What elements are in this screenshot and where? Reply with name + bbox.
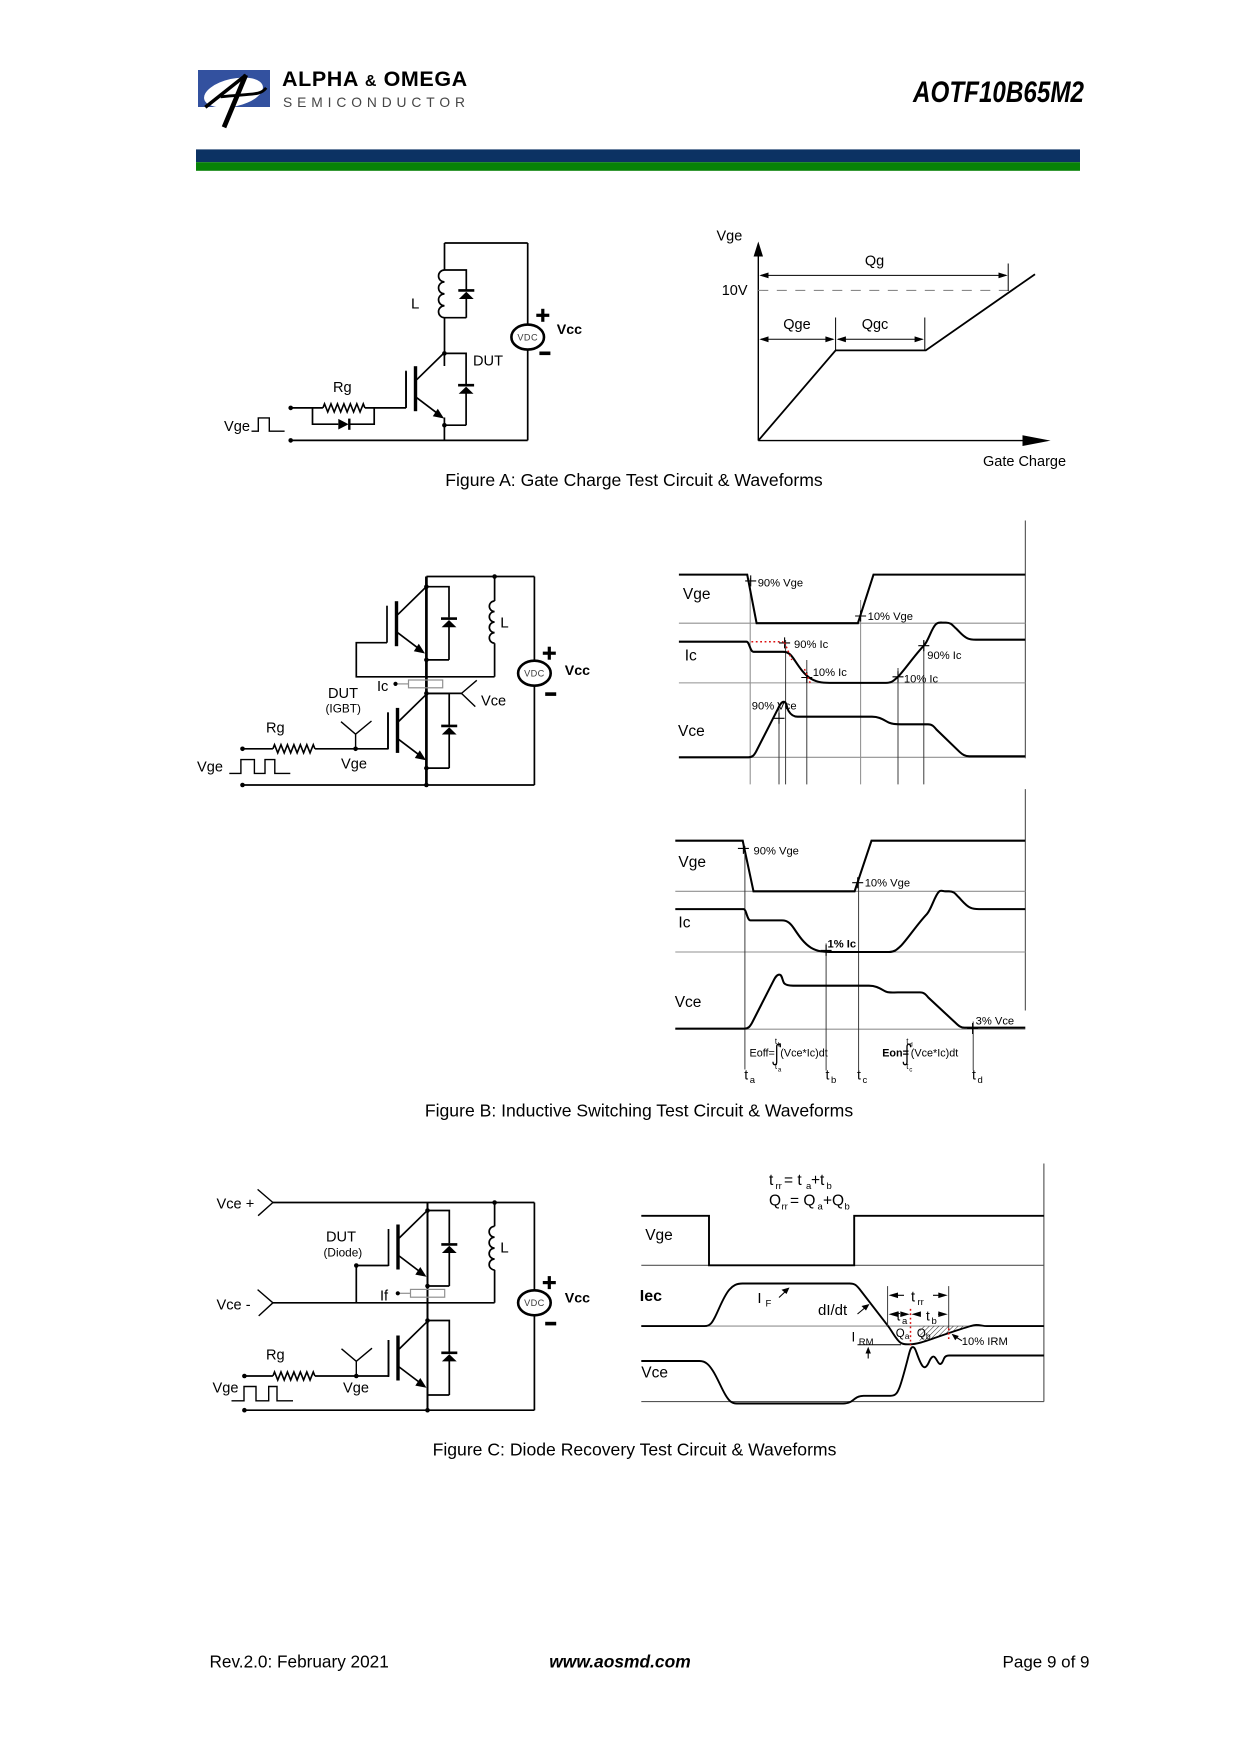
svg-text:b: b (845, 1202, 850, 1213)
refline 90%Ic fall (785, 640, 787, 784)
Eoff formula (750, 1037, 828, 1074)
diode DUT body diode (fig B) (441, 726, 457, 735)
svg-text:(Diode): (Diode) (324, 1245, 363, 1259)
polarity + (543, 652, 556, 655)
svg-text:a: a (778, 1066, 782, 1073)
svg-text:Ic: Ic (377, 679, 388, 695)
svg-text:Page 9 of 9: Page 9 of 9 (1003, 1653, 1090, 1672)
wire: top rail B (426, 576, 534, 578)
svg-text:Vce: Vce (675, 994, 702, 1011)
inductor L (fig A) (439, 270, 445, 318)
svg-text:Qgc: Qgc (862, 317, 889, 333)
wire: gate lead A (291, 372, 406, 408)
red dotted fall slope (785, 643, 792, 661)
inductor L (fig B) (489, 601, 494, 643)
formula trr (769, 1172, 832, 1192)
polarity + (543, 1281, 556, 1284)
wire: middle phase column B (425, 577, 428, 786)
panel2 right border (1024, 789, 1026, 1010)
svg-text:Vcc: Vcc (565, 1290, 590, 1306)
svg-text:90% Vge: 90% Vge (758, 578, 803, 590)
Vge pulse symbol B (229, 760, 290, 774)
node return C (242, 1408, 247, 1413)
svg-text:Q: Q (896, 1328, 905, 1340)
svg-text:10% Vge: 10% Vge (865, 878, 910, 890)
transistor DUT IGBT (fig B) (388, 695, 426, 761)
svg-text:Vcc: Vcc (565, 663, 590, 679)
svg-text:VDC: VDC (517, 332, 538, 342)
header bar green (196, 162, 1080, 171)
svg-text:VDC: VDC (524, 668, 545, 678)
svg-text:Vce +: Vce + (217, 1197, 255, 1213)
svg-text:+Q: +Q (823, 1193, 844, 1210)
svg-text:Eoff=: Eoff= (750, 1048, 775, 1060)
node gate input A (288, 406, 293, 411)
wire: DUT antiparallel diode branch A (444, 353, 466, 425)
panel1 Ic baseline (679, 682, 1025, 684)
wire: gate lead C (244, 1340, 388, 1376)
svg-text:= t: = t (784, 1172, 802, 1189)
refline tb (825, 943, 827, 1070)
refline 90%Vce (778, 704, 780, 784)
label IF (757, 1288, 789, 1310)
refline 90%Ic rise (923, 640, 925, 784)
svg-text:(IGBT): (IGBT) (326, 701, 361, 715)
svg-text:c: c (863, 1075, 868, 1086)
svg-text:Figure A: Gate Charge Test Cir: Figure A: Gate Charge Test Circuit & Wav… (445, 470, 823, 490)
svg-text:Vge: Vge (224, 419, 250, 435)
wire: top rail A (445, 242, 528, 244)
wire: middle column C (427, 1203, 429, 1411)
panel2 Vge baseline (675, 890, 1025, 892)
svg-text:t: t (926, 1309, 930, 1324)
panel1 Vge trace (679, 575, 1025, 624)
mark 1% Ic p2 (821, 945, 832, 956)
svg-text:Vce: Vce (678, 723, 705, 740)
Qgc dimension arrow (837, 318, 925, 351)
Eon formula (882, 1037, 958, 1074)
mark 10% Vge p2 (852, 877, 863, 888)
node upper gate C (354, 1263, 359, 1268)
panel1 right border (1024, 521, 1026, 759)
node L top B (492, 574, 497, 579)
Vce+ chevron (258, 1189, 273, 1215)
node return input A (288, 438, 293, 443)
logo blue box (198, 70, 270, 107)
label Qb (917, 1328, 931, 1341)
wire: upper diode branch B (426, 587, 449, 660)
wire: upper gate tie loop B (356, 643, 494, 677)
wire: VDC branch C (533, 1203, 535, 1411)
svg-text:Iec: Iec (640, 1288, 662, 1305)
wire: lower diode branch C (428, 1321, 450, 1396)
svg-text:b: b (831, 1075, 836, 1086)
svg-text:rr: rr (918, 1297, 924, 1308)
panel2 Ic baseline (675, 951, 1025, 953)
transistor upper IGBT (fig B) (387, 588, 425, 654)
dashed 10V level (758, 289, 1009, 291)
svg-text:Figure B: Inductive Switching: Figure B: Inductive Switching Test Circu… (425, 1101, 853, 1121)
header bar navy (196, 149, 1080, 162)
panel1 Vge baseline (679, 622, 1025, 624)
svg-text:L: L (500, 1240, 508, 1257)
svg-text:Qge: Qge (783, 317, 810, 333)
diode lower freewheel diode (fig C) (441, 1353, 457, 1362)
current sense shunt B (409, 680, 443, 688)
svg-text:(Vce*Ic)dt: (Vce*Ic)dt (911, 1048, 958, 1060)
svg-text:Vce: Vce (481, 693, 506, 709)
wire: bottom rail A (291, 439, 528, 441)
wire: gate lead B (243, 712, 389, 748)
voltage source V1 (fig B) VDC (518, 661, 551, 686)
svg-text:b: b (932, 1316, 937, 1327)
svg-text:b: b (827, 1181, 832, 1192)
svg-text:t: t (972, 1067, 976, 1083)
Vge probe Y C (342, 1348, 373, 1376)
wire: Vcc branch right A (527, 243, 529, 440)
figC Vce baseline (641, 1401, 1044, 1403)
svg-text:Vce: Vce (641, 1364, 668, 1381)
svg-text:DUT: DUT (473, 354, 503, 370)
mark 90% Vge p1 (745, 575, 756, 586)
svg-text:L: L (500, 615, 508, 632)
svg-text:Vge: Vge (197, 759, 223, 775)
svg-text:F: F (766, 1299, 772, 1310)
Ic probe lead (393, 682, 408, 686)
svg-text:VDC: VDC (524, 1298, 545, 1308)
figC Vce trace (641, 1347, 1044, 1403)
diode freewheel (fig A) (458, 290, 474, 299)
svg-text:10% Ic: 10% Ic (813, 667, 848, 679)
refline tc (858, 878, 860, 1071)
red marker 10% IRM (948, 1328, 950, 1341)
mark 10% Vge p1 (855, 611, 866, 622)
node emitter A (442, 423, 447, 428)
svg-text:ALPHA & OMEGA: ALPHA & OMEGA (282, 67, 468, 91)
svg-text:Vcc: Vcc (557, 322, 582, 338)
svg-text:t: t (744, 1067, 748, 1083)
svg-text:Vge: Vge (645, 1227, 673, 1244)
red marker ta/tb (910, 1309, 912, 1346)
resistor Rg (fig B) (273, 745, 315, 753)
svg-text:Ic: Ic (685, 648, 697, 665)
figC Iec baseline (641, 1325, 1044, 1327)
node return B (240, 783, 245, 788)
svg-text:Q: Q (917, 1328, 926, 1340)
panel1 Ic trace (679, 623, 1025, 683)
svg-text:RM: RM (859, 1337, 874, 1348)
node lower collector B (424, 691, 429, 696)
panel1 Vce baseline (679, 756, 1025, 758)
svg-text:Ic: Ic (678, 915, 690, 932)
svg-text:c: c (909, 1066, 912, 1073)
node upper emitter C (425, 1284, 430, 1289)
node upper collector C (425, 1208, 430, 1213)
polarity - (545, 692, 556, 696)
svg-text:d: d (978, 1075, 983, 1086)
svg-text:www.aosmd.com: www.aosmd.com (549, 1652, 690, 1672)
refline td (972, 1022, 974, 1071)
svg-text:L: L (411, 296, 419, 313)
svg-text:90% Ic: 90% Ic (794, 639, 829, 651)
wire: upper diode branch C (428, 1211, 450, 1287)
panel2 Vce trace (675, 975, 1025, 1029)
svg-text:+t: +t (811, 1172, 825, 1189)
figC Vge baseline (641, 1264, 1044, 1266)
svg-text:Rg: Rg (266, 1348, 285, 1364)
node Vge input C (242, 1374, 247, 1379)
svg-text:a: a (905, 1331, 910, 1341)
refline 10%Ic fall (806, 660, 808, 784)
figC Iec trace (641, 1284, 1044, 1345)
svg-text:Gate Charge: Gate Charge (983, 454, 1066, 470)
node phase B (424, 658, 429, 663)
inductor L (fig C) (489, 1226, 494, 1270)
gate charge curve (758, 274, 1035, 440)
svg-text:If: If (380, 1288, 389, 1304)
node gate probe C (354, 1374, 359, 1379)
refline t0 (749, 578, 751, 784)
node collector A (442, 351, 447, 356)
node lower emitter B (424, 766, 429, 771)
svg-text:Eon=: Eon= (882, 1048, 909, 1060)
x-axis Gate Charge (758, 435, 1050, 446)
logo ellipse (201, 73, 266, 113)
svg-text:(Vce*Ic)dt: (Vce*Ic)dt (780, 1048, 827, 1060)
svg-text:Vge: Vge (341, 757, 367, 773)
Vge pulse symbol C (232, 1387, 294, 1401)
svg-text:rr: rr (782, 1202, 788, 1213)
svg-text:Vge: Vge (717, 229, 743, 245)
transistor DUT IGBT upper (fig C) (389, 1211, 427, 1277)
svg-text:AOTF10B65M2: AOTF10B65M2 (912, 76, 1084, 109)
mark 90% Vge p2 (738, 843, 749, 854)
svg-text:I: I (852, 1329, 856, 1344)
mark 90% Ic fall p1 (779, 637, 790, 648)
formula Qrr (769, 1193, 850, 1213)
svg-text:1% Ic: 1% Ic (828, 939, 857, 951)
svg-text:90% Ic: 90% Ic (927, 650, 962, 662)
Vge pulse symbol A (252, 418, 285, 431)
svg-text:t: t (769, 1172, 774, 1189)
svg-text:10V: 10V (722, 283, 748, 299)
red dotted 10% mark (805, 669, 811, 683)
transistor lower IGBT (fig C) (389, 1322, 427, 1388)
mark 10% Ic rise p1 (893, 671, 904, 682)
svg-text:Qg: Qg (865, 254, 884, 270)
refline ta (744, 846, 746, 1070)
Vce- chevron (258, 1290, 273, 1316)
polarity + (536, 314, 549, 317)
panel2 Vge trace (675, 841, 1025, 892)
svg-text:Vge: Vge (213, 1381, 239, 1397)
mark 3% Vce p2 (967, 1023, 978, 1034)
svg-text:Figure C: Diode Recovery Test: Figure C: Diode Recovery Test Circuit & … (433, 1439, 837, 1459)
svg-text:a: a (902, 1316, 908, 1327)
panel1 Vce trace (679, 702, 1025, 758)
panel2 Vce baseline (675, 1028, 1025, 1030)
wire: bottom rail C (244, 1409, 534, 1411)
Qge dimension arrow (759, 318, 835, 351)
voltage source V1 VDC (511, 325, 544, 350)
trr left boundary (887, 1286, 889, 1326)
node Vge input B (240, 747, 245, 752)
refline Vge rise (860, 600, 862, 784)
figC Vge trace (641, 1216, 1044, 1266)
diode DUT body diode (fig C) (441, 1244, 457, 1253)
svg-text:DUT: DUT (326, 1230, 356, 1246)
mark 90% Vce p1 (774, 713, 785, 724)
svg-text:= Q: = Q (790, 1193, 815, 1210)
wire: Vce- rail C (273, 1302, 495, 1304)
panel2 Ic trace (675, 891, 1025, 952)
svg-text:90% Vge: 90% Vge (754, 846, 799, 858)
If probe lead (396, 1291, 411, 1295)
svg-text:Vce -: Vce - (217, 1298, 251, 1314)
voltage source V1 (fig C) VDC (518, 1290, 551, 1315)
node bottom mid C (425, 1408, 430, 1413)
svg-text:90% Vce: 90% Vce (752, 701, 797, 713)
diode gate clamp (fig A) (338, 419, 349, 430)
wire: gate clamp diode loop A (313, 408, 375, 424)
Vce probe B (426, 680, 476, 706)
svg-text:DUT: DUT (328, 686, 358, 702)
svg-text:t: t (826, 1067, 830, 1083)
label Qa (896, 1328, 910, 1341)
mark 90% Ic rise p1 (918, 640, 929, 651)
wire: VDC branch B (533, 577, 535, 786)
svg-text:Vge: Vge (683, 586, 711, 603)
wire: DUT collector node to emitter node A (443, 353, 445, 440)
svg-text:Rg: Rg (333, 380, 352, 396)
Vge probe Y B (341, 721, 372, 749)
node gate probe B (353, 747, 358, 752)
wire: lower diode branch B (426, 693, 449, 768)
ta tb dimension (889, 1309, 948, 1328)
Qg dimension arrow (759, 264, 1008, 292)
node upper collector B (424, 584, 429, 589)
label 10% IRM (952, 1334, 1008, 1348)
svg-text:10% IRM: 10% IRM (962, 1336, 1008, 1348)
y-axis Vge (754, 242, 763, 441)
svg-text:t: t (857, 1067, 861, 1083)
label IRM (852, 1329, 902, 1358)
polarity - (539, 351, 550, 355)
wire: top rail C (273, 1202, 535, 1204)
svg-text:Rev.2.0: February 2021: Rev.2.0: February 2021 (210, 1652, 389, 1672)
trr dimension (889, 1289, 948, 1308)
svg-text:Vge: Vge (343, 1381, 369, 1397)
svg-text:3% Vce: 3% Vce (976, 1016, 1015, 1028)
hatch Qrr area (920, 1326, 975, 1342)
wire: inductor branch C (494, 1203, 496, 1303)
svg-text:dI/dt: dI/dt (818, 1302, 848, 1319)
svg-text:Vge: Vge (678, 854, 706, 871)
refline 10%Ic rise (897, 668, 899, 784)
svg-text:b: b (926, 1331, 931, 1341)
logo A glyph (205, 75, 266, 127)
trr right boundary (948, 1286, 950, 1330)
node bottom mid B (424, 783, 429, 788)
svg-text:Q: Q (769, 1193, 781, 1210)
current sense shunt C (411, 1289, 445, 1297)
wire: bottom rail B (243, 784, 535, 786)
resistor Rg (fig A) (323, 404, 365, 412)
svg-text:t: t (911, 1289, 915, 1305)
wire: inductor branch B (494, 577, 496, 677)
svg-text:rr: rr (776, 1181, 782, 1192)
wire: inductor branch A (444, 243, 446, 353)
svg-text:SEMICONDUCTOR: SEMICONDUCTOR (283, 95, 470, 110)
svg-text:10% Vge: 10% Vge (868, 611, 913, 623)
label dI/dt (818, 1302, 870, 1319)
wire: freewheel diode branch A (445, 270, 467, 318)
resistor Rg (fig C) (273, 1372, 315, 1380)
svg-text:t: t (897, 1309, 901, 1324)
diode DUT body diode (fig A) (458, 385, 474, 394)
mark 10% Ic fall p1 (801, 672, 812, 683)
polarity - (545, 1322, 556, 1326)
svg-text:a: a (750, 1075, 756, 1086)
node lower collector C (425, 1318, 430, 1323)
svg-text:I: I (757, 1290, 761, 1307)
diode upper freewheel diode (fig B) (441, 619, 457, 628)
node L top C (492, 1200, 497, 1205)
wire: upper gate lead C (356, 1266, 388, 1303)
transistor DUT IGBT (fig A) (406, 353, 444, 419)
figC right border (1043, 1164, 1045, 1402)
svg-text:Rg: Rg (266, 721, 285, 737)
red dotted 90% Ic level (751, 641, 783, 643)
svg-text:10% Ic: 10% Ic (904, 674, 939, 686)
